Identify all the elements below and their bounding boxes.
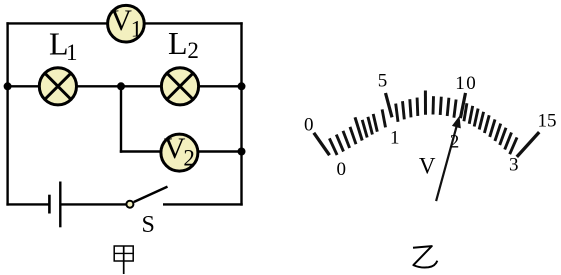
wire middle junction to L2 <box>121 85 162 87</box>
svg-text:2: 2 <box>187 38 199 63</box>
battery plate negative (short) <box>48 195 51 214</box>
lamp L1 <box>39 68 76 105</box>
svg-text:2: 2 <box>450 132 460 153</box>
wire battery to switch <box>61 203 126 205</box>
svg-text:1: 1 <box>66 40 78 65</box>
label jia (circuit) <box>114 246 134 274</box>
wire left vertical <box>6 22 8 205</box>
svg-text:1: 1 <box>131 16 143 41</box>
node: right upper junction dot <box>238 82 246 90</box>
svg-text:0: 0 <box>337 159 347 180</box>
svg-text:5: 5 <box>378 70 388 91</box>
switch S circle terminal <box>126 201 133 208</box>
label yi (meter) <box>413 246 437 267</box>
wire L1 to middle junction <box>76 85 121 87</box>
wire V2 row left <box>120 150 162 152</box>
svg-text:15: 15 <box>538 111 557 132</box>
svg-text:V: V <box>110 4 132 37</box>
wire right vertical <box>240 22 242 205</box>
meter needle <box>436 116 461 201</box>
svg-text:V: V <box>419 153 436 178</box>
svg-text:S: S <box>142 212 155 238</box>
wire V2 to right junction <box>197 150 242 152</box>
voltmeter V2 <box>161 132 198 171</box>
wire bottom left (to battery) <box>6 203 48 205</box>
meter scale ticks <box>314 91 539 157</box>
wire lamp row left <box>8 85 40 87</box>
node: right lower junction dot <box>238 148 246 156</box>
wire middle vertical (junction down to V2 row) <box>120 86 122 152</box>
wire switch to bottom right corner <box>163 203 243 205</box>
wire top left (to V1) <box>6 22 108 24</box>
svg-text:0: 0 <box>304 115 314 136</box>
lamp L2 <box>161 68 198 105</box>
svg-text:3: 3 <box>509 155 519 176</box>
svg-text:2: 2 <box>183 145 195 170</box>
node: left junction dot <box>4 82 12 90</box>
svg-text:L: L <box>168 25 188 61</box>
svg-text:1: 1 <box>390 128 400 149</box>
node: middle junction dot <box>117 82 125 90</box>
battery plate positive (long) <box>59 182 61 228</box>
wire L2 to right wire <box>198 85 242 87</box>
voltmeter V1 <box>108 4 145 42</box>
svg-text:10: 10 <box>455 73 477 94</box>
switch S lever <box>134 187 168 202</box>
wire top right (V1 to corner) <box>144 22 243 24</box>
